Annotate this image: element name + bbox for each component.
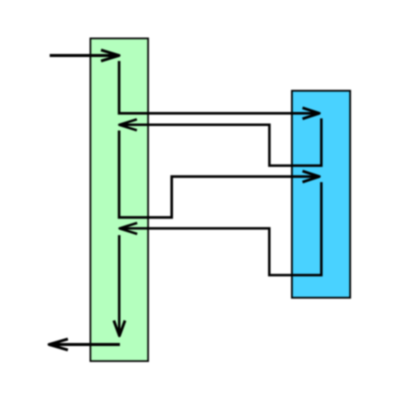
process box B (blue lifeline) <box>292 91 350 298</box>
arrowhead: output to the left <box>49 339 68 350</box>
arrowhead: call 1 into B <box>303 108 320 119</box>
arrowhead: down arrow in A <box>114 321 125 336</box>
arrowhead: return 2 into A <box>120 223 138 234</box>
arrowhead: call 2 into B <box>303 171 320 182</box>
wire: A activation segment 2 + call to B (message 3) <box>119 131 318 218</box>
wire: B activation 2 + return to A (message 4) <box>123 182 322 275</box>
wire: output message out of A <box>51 343 120 346</box>
arrowhead: input into A <box>101 50 119 61</box>
process box A (green lifeline) <box>90 38 148 361</box>
arrowhead: return 1 into A <box>119 119 137 130</box>
wire: B activation + return to A (message 2) <box>123 118 322 165</box>
wire: A activation segment 3 (downward flow) <box>118 235 121 332</box>
wire: input message into A <box>50 54 118 57</box>
wire: A activation segment 1 + call to B (message 1) <box>119 61 318 113</box>
